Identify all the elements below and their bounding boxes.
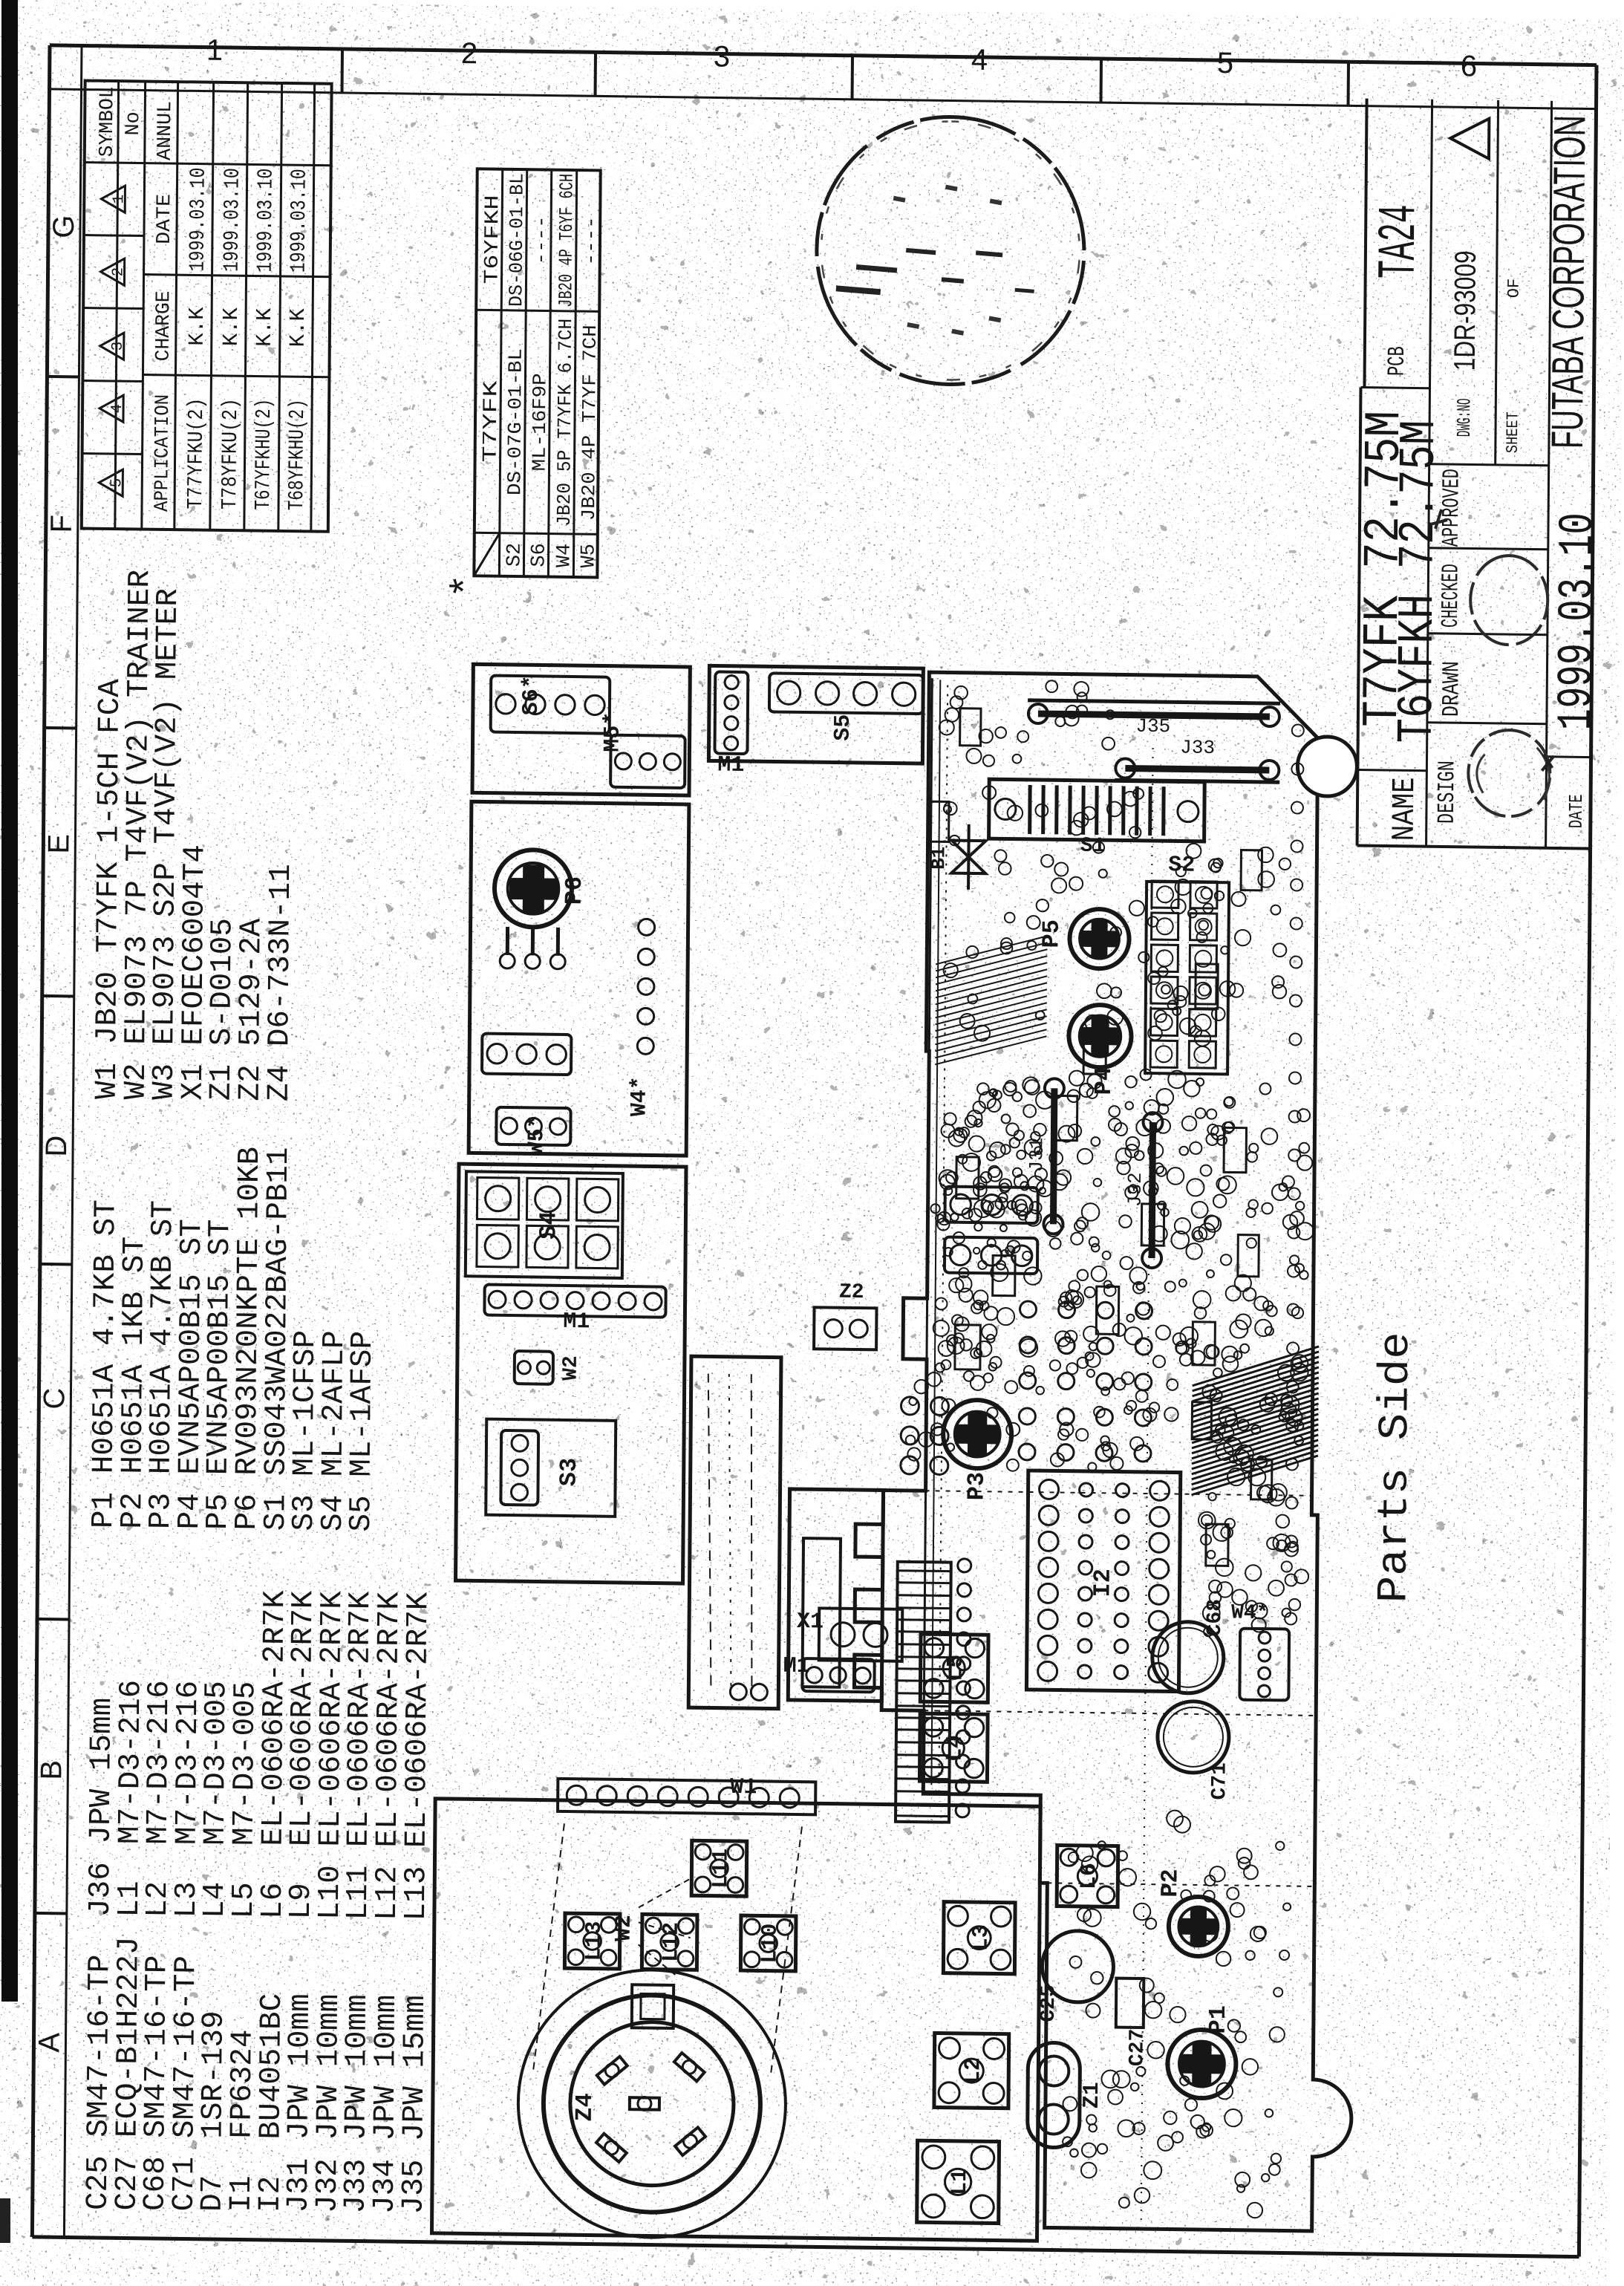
svg-text:DESIGN: DESIGN — [1433, 761, 1461, 824]
revision table data rows — [183, 167, 312, 510]
svg-text:B: B — [35, 1760, 68, 1780]
svg-text:2: 2 — [111, 267, 128, 277]
svg-text:3: 3 — [110, 342, 127, 351]
svg-text:W2: W2 — [612, 1915, 637, 1941]
svg-text:Z4: Z4 — [571, 2093, 599, 2122]
M1 comb connector (center) — [783, 1489, 883, 1702]
PCB label and TA24 — [1369, 204, 1431, 377]
S2 pin header 2x6 — [1145, 853, 1229, 1074]
svg-text:SYMBOL: SYMBOL — [97, 86, 120, 157]
box P6 inner pads — [637, 1038, 653, 1054]
L3 inductor — [943, 1902, 1015, 1974]
small component rects scattered — [924, 708, 1278, 1566]
svg-text:W1: W1 — [730, 1775, 757, 1800]
L13 inductor pad square — [564, 1913, 620, 1969]
W2 label and dashed leads — [611, 1878, 691, 1975]
zone numbers 1-6 — [206, 34, 1478, 83]
pad field left section — [1191, 2115, 1204, 2129]
P6 legs — [506, 927, 509, 955]
svg-text:T7YFK: T7YFK — [480, 380, 503, 462]
parts list column 1 (C25..J35) — [82, 1936, 434, 2215]
Z4 key rectangle — [632, 1984, 674, 2028]
J33 jumper pair — [1115, 735, 1279, 782]
svg-text:L2: L2 — [961, 2057, 986, 2084]
svg-text:M1: M1 — [717, 753, 744, 778]
svg-text:APPLICATION: APPLICATION — [151, 394, 175, 512]
svg-text:L13: L13 — [581, 1921, 607, 1961]
L1 inductor — [917, 2140, 999, 2223]
svg-text:F: F — [45, 515, 78, 533]
B1 pads near comb — [901, 1456, 919, 1474]
pad field upper center — [1002, 1250, 1008, 1257]
W4 connector small strip — [482, 1034, 571, 1075]
svg-text:E: E — [42, 834, 75, 854]
svg-text:P1: P1 — [1204, 2005, 1232, 2034]
svg-text:S6*: S6* — [519, 675, 544, 715]
title block row lines — [1426, 100, 1552, 848]
svg-text:L1: L1 — [948, 2169, 973, 2195]
svg-text:OF: OF — [1504, 279, 1523, 299]
J31 jumper wire — [1053, 1088, 1054, 1224]
svg-text:K.K: K.K — [286, 307, 310, 347]
parts list column 3 (P1..S5) — [87, 1144, 382, 1532]
svg-text:FUTABA CORPORATION: FUTABA CORPORATION — [1542, 115, 1595, 449]
svg-text:C68: C68 — [1204, 1599, 1227, 1637]
S6 connector strip — [491, 676, 610, 734]
svg-text:S5 ML-1AFSP: S5 ML-1AFSP — [345, 1331, 380, 1532]
P6 trimmer — [495, 850, 573, 928]
svg-text:G: G — [48, 215, 80, 238]
svg-text:P6: P6 — [561, 876, 588, 905]
svg-text:J35: J35 — [1135, 715, 1170, 738]
svg-text:S6: S6 — [528, 543, 550, 567]
svg-text:W2: W2 — [560, 1355, 583, 1381]
svg-text:PCB: PCB — [1383, 346, 1411, 376]
svg-text:J35 JPW 15mm: J35 JPW 15mm — [397, 1995, 433, 2215]
svg-text:1999.03.10: 1999.03.10 — [186, 167, 211, 271]
svg-text:JB20 4P T6YF 6CH: JB20 4P T6YF 6CH — [555, 174, 578, 307]
svg-text:3: 3 — [714, 40, 731, 73]
connector strips near C68 — [945, 1187, 1038, 1274]
L10 inductor pad square — [740, 1915, 796, 1971]
svg-text:DWG:NO: DWG:NO — [1453, 398, 1475, 437]
W5 connector small strip — [496, 1107, 570, 1145]
svg-text:CHECKED: CHECKED — [1437, 564, 1465, 628]
svg-text:Parts Side: Parts Side — [1371, 1332, 1421, 1603]
J35 jumper pair (board right) — [1028, 700, 1280, 739]
bottom-left outline box (Z4/DIN area) — [431, 1799, 1040, 2241]
svg-text:M1: M1 — [563, 1309, 590, 1335]
second dotted line — [939, 678, 948, 1792]
P1 trimmer — [1167, 2029, 1236, 2098]
svg-text:Z2: Z2 — [839, 1281, 864, 1304]
svg-text:----: ---- — [530, 215, 553, 264]
svg-text:5: 5 — [1217, 47, 1234, 79]
Z4 DIN connector main circles — [543, 1994, 761, 2214]
connector outline box S6/M5 (top right of drawing) — [472, 664, 690, 795]
C25 capacitor — [1042, 1930, 1114, 2002]
W2 connector small rect — [515, 1351, 553, 1384]
DATE row — [1548, 512, 1606, 829]
svg-text:6: 6 — [1461, 50, 1478, 82]
svg-text:P2: P2 — [1156, 1869, 1184, 1898]
zone letters A-G — [33, 215, 80, 2052]
extra pad clusters center — [1007, 1459, 1019, 1471]
svg-text:W5: W5 — [578, 544, 600, 568]
svg-text:C: C — [38, 1387, 71, 1409]
DWG NO row — [1448, 250, 1482, 437]
svg-text:DRAWN: DRAWN — [1438, 661, 1466, 717]
X1 ceramic filter — [797, 1608, 903, 1661]
svg-text:L3: L3 — [969, 1924, 994, 1951]
L6 inductor — [1057, 1846, 1118, 1907]
svg-text:TA24: TA24 — [1369, 204, 1431, 279]
L5 inductor — [920, 1634, 988, 1702]
svg-text:S2: S2 — [503, 543, 526, 567]
dense ladder connector band (center) — [896, 1558, 971, 1823]
L12 inductor pad square — [642, 1914, 697, 1970]
dense pad field center — [949, 1278, 963, 1292]
svg-text:D: D — [40, 1135, 73, 1156]
svg-text:S4: S4 — [535, 1211, 562, 1240]
S1 wire dashes in box — [705, 1373, 770, 1700]
svg-text:No: No — [123, 111, 145, 136]
connector outline box P6/W4/W5 — [469, 801, 689, 1156]
revision table header labels — [94, 86, 177, 512]
Z1 crystal — [1027, 2042, 1105, 2148]
dense pad field right — [1168, 1000, 1177, 1010]
signature scribbles — [1429, 509, 1556, 817]
svg-text:L10: L10 — [757, 1923, 783, 1963]
small 3-pad strip left of comb — [802, 1658, 874, 1692]
svg-text:4: 4 — [971, 44, 988, 76]
dense pad field bottom band — [1295, 1264, 1304, 1273]
svg-text:A: A — [33, 2032, 65, 2053]
S1 slide switch block — [988, 779, 1204, 859]
svg-text:5: 5 — [108, 478, 125, 488]
svg-text:L11: L11 — [708, 1849, 734, 1889]
svg-text:W4: W4 — [553, 543, 575, 567]
svg-text:4: 4 — [109, 404, 126, 414]
svg-text:C27: C27 — [1126, 2029, 1149, 2067]
parts list column 4 (W1..Z4) — [91, 569, 301, 1101]
P4 trimmer — [1069, 1005, 1132, 1068]
M1 strip in box — [714, 671, 748, 754]
svg-text:S2: S2 — [1168, 853, 1195, 878]
svg-text:1999.03.10: 1999.03.10 — [287, 169, 312, 273]
PCB board outline (main board, landscape) — [878, 671, 1363, 2231]
svg-text:M5*: M5* — [600, 711, 625, 752]
W4 wire connector (lower) — [1239, 1629, 1289, 1701]
dense pad field center-low — [1126, 1137, 1139, 1150]
svg-text:Z1: Z1 — [1080, 2082, 1105, 2108]
design drawn checked approved labels — [1433, 469, 1467, 824]
small pads row along bottom edge — [1285, 1612, 1297, 1624]
I2 IC (BU4051BC) — [1026, 1471, 1180, 1692]
svg-text:L12: L12 — [659, 1922, 684, 1962]
C71 electrolytic — [1158, 1701, 1230, 1773]
dashed leads across box — [771, 1820, 803, 2074]
svg-text:NAME: NAME — [1386, 777, 1424, 841]
svg-text:CHARGE: CHARGE — [153, 290, 176, 361]
title block outline — [1357, 99, 1597, 849]
svg-text:W4*: W4* — [627, 1076, 653, 1116]
svg-text:W4*: W4* — [1231, 1601, 1269, 1625]
svg-text:P3: P3 — [962, 1472, 990, 1501]
Z2 small part — [814, 1280, 877, 1349]
svg-text:DS-06G-01-BL: DS-06G-01-BL — [505, 173, 528, 307]
svg-text:1: 1 — [111, 195, 128, 204]
hatch patch (dense traces) — [1192, 1345, 1320, 1497]
svg-text:ANNUL: ANNUL — [154, 101, 177, 160]
zone letter ticks — [35, 377, 79, 1914]
svg-text:J33: J33 — [1180, 736, 1215, 759]
title block column lines — [1357, 463, 1593, 773]
svg-text:1999.03.10: 1999.03.10 — [253, 168, 278, 272]
svg-text:T67YFKHU(2): T67YFKHU(2) — [251, 398, 276, 509]
svg-text:T6YFKH: T6YFKH — [481, 195, 504, 284]
revision triangle in DWG row — [1450, 118, 1489, 159]
board dotted reference lines — [924, 1710, 1316, 1716]
connector application table (S2 S6 W4 W5) — [474, 169, 600, 577]
M5 connector strip — [610, 735, 685, 788]
L4 inductor — [919, 1713, 988, 1782]
svg-text:T78YFKU(2): T78YFKU(2) — [218, 398, 243, 509]
revision history table grid — [82, 81, 332, 532]
svg-text:K.K: K.K — [219, 307, 244, 346]
svg-text:X1: X1 — [797, 1609, 824, 1635]
S4 pad block — [466, 1171, 623, 1278]
B1 diode symbol — [927, 824, 986, 890]
received date stamp (circle) — [815, 115, 1085, 386]
svg-text:*: * — [446, 574, 491, 599]
svg-text:1DR-93009: 1DR-93009 — [1449, 250, 1482, 371]
svg-text:1999.03.10: 1999.03.10 — [1549, 512, 1606, 731]
svg-text:DS-07G-01-BL: DS-07G-01-BL — [503, 348, 527, 495]
revision triangles 1-5 — [99, 186, 128, 496]
tall outline box (S1 wires area) — [688, 1356, 781, 1709]
svg-text:JB20 5P T7YFK 6.7CH: JB20 5P T7YFK 6.7CH — [553, 319, 577, 527]
svg-text:W5*: W5* — [524, 1115, 550, 1155]
C68 electrolytic — [1152, 1621, 1224, 1693]
zone letter band inner line (top) — [64, 45, 82, 2237]
svg-text:T68YFKHU(2): T68YFKHU(2) — [284, 399, 310, 510]
svg-text:----: ---- — [580, 216, 603, 265]
application table texts — [479, 172, 603, 567]
hatch patch 2 — [935, 934, 1047, 1066]
svg-text:P4: P4 — [1090, 1067, 1118, 1095]
connector outline box M1/S5 (right) — [708, 665, 923, 763]
svg-text:I2: I2 — [1089, 1569, 1116, 1598]
P2 trimmer — [1169, 1896, 1229, 1956]
svg-text:DATE: DATE — [1565, 794, 1588, 828]
S5 connector strip — [769, 673, 923, 714]
P3 trimmer — [943, 1400, 1012, 1469]
svg-text:SHEET: SHEET — [1504, 411, 1522, 453]
scanner edge artifact bar — [1, 0, 18, 2002]
svg-text:DATE: DATE — [154, 194, 177, 244]
P5 trimmer — [1069, 909, 1129, 969]
svg-text:1999.03.10: 1999.03.10 — [220, 168, 245, 272]
svg-text:C71: C71 — [1208, 1762, 1231, 1800]
svg-text:T77YFKU(2): T77YFKU(2) — [183, 397, 209, 509]
M1 pin row (box4) — [484, 1285, 665, 1318]
S3 block — [486, 1419, 616, 1517]
parts list column 2 (J36..L13) — [84, 1588, 437, 1921]
extra pad clusters right section — [1097, 983, 1112, 998]
pad grid right of I2 — [1019, 1444, 1035, 1460]
J36 wire strip — [558, 1779, 815, 1814]
connector outline box S4/M1/W2/S3 — [456, 1164, 686, 1583]
svg-text:L6: L6 — [1077, 1863, 1102, 1889]
SHEET OF row — [1504, 279, 1524, 454]
svg-text:ML-16F9P: ML-16F9P — [528, 373, 551, 471]
svg-text:S5: S5 — [831, 714, 856, 740]
svg-text:1: 1 — [206, 34, 224, 67]
svg-text:K.K: K.K — [252, 307, 277, 347]
svg-text:2: 2 — [461, 37, 478, 70]
Z4 DIN connector outer circle — [517, 1968, 786, 2239]
J32 jumper wire — [1152, 1122, 1152, 1258]
svg-text:S3: S3 — [555, 1458, 583, 1487]
svg-text:L13 EL-0606RA-2R7K: L13 EL-0606RA-2R7K — [400, 1592, 437, 1921]
zone number ticks — [342, 49, 1349, 105]
board corner notch circle (bottom right) — [1297, 737, 1357, 797]
svg-text:K.K: K.K — [185, 307, 209, 346]
svg-text:APPROVED: APPROVED — [1438, 469, 1466, 547]
L2 inductor — [934, 2033, 1009, 2108]
L11 inductor pad square — [691, 1840, 747, 1896]
zone number band inner line (right) — [50, 89, 1597, 109]
Z4 pins — [596, 2051, 706, 2163]
C27 capacitor — [1116, 1979, 1144, 2028]
svg-text:JB20 4P T7YF 7CH: JB20 4P T7YF 7CH — [578, 325, 601, 521]
svg-text:Z4 D6-733N-11: Z4 D6-733N-11 — [263, 864, 299, 1101]
